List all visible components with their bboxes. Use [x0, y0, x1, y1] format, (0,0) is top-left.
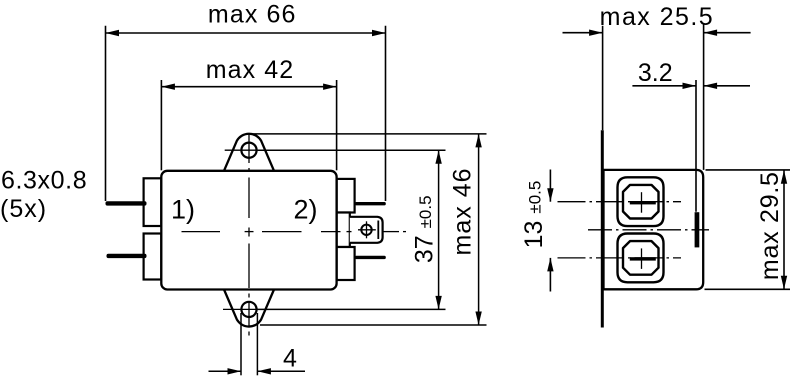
svg-text:max 46: max 46	[449, 168, 477, 256]
mounting lug top	[224, 134, 274, 171]
dimension max 29.5	[705, 170, 790, 289]
filter body (side view)	[604, 170, 704, 289]
dimension max 46	[246, 134, 487, 325]
left terminal bump lower	[144, 234, 162, 280]
dimension max 42	[161, 80, 336, 170]
faston tab hole	[358, 221, 376, 238]
centerline upper terminal	[558, 201, 682, 203]
svg-text:4: 4	[283, 345, 297, 373]
svg-text:max 29.5: max 29.5	[756, 171, 784, 280]
right terminal bump upper	[337, 179, 355, 213]
centerline middle tab	[588, 229, 709, 231]
wire lead upper left	[106, 201, 147, 205]
centerline lower terminal	[558, 257, 682, 259]
dimension 37 +/-0.5	[257, 150, 446, 309]
flat tab lower right (edge view)	[355, 256, 386, 259]
dimension max 25.5	[563, 25, 751, 170]
svg-text:max 42: max 42	[206, 56, 295, 84]
terminal cross-section lower	[618, 234, 664, 283]
svg-text:6.3x0.8: 6.3x0.8	[1, 167, 87, 195]
svg-text:3.2: 3.2	[638, 59, 673, 87]
svg-text:2): 2)	[294, 195, 318, 225]
right terminal bump lower	[337, 247, 355, 280]
hole in top lug	[241, 143, 256, 158]
faston tab middle right	[350, 217, 383, 243]
mounting lug bottom	[224, 290, 274, 327]
svg-text:max 25.5: max 25.5	[600, 3, 714, 31]
svg-text:1): 1)	[171, 195, 195, 225]
wire lead lower left	[107, 254, 147, 258]
dimension 13 +/-0.5	[549, 170, 551, 292]
mounting flange (side view)	[601, 130, 604, 327]
flat tab upper right (edge view)	[355, 202, 386, 205]
terminal cross-section upper	[618, 177, 664, 226]
vertical centerline front view	[248, 134, 250, 336]
horizontal centerline front view	[182, 231, 407, 233]
dimension 4 (lug slot)	[209, 313, 306, 375]
svg-text:(5x): (5x)	[0, 195, 47, 223]
dimension 3.2	[632, 80, 750, 212]
faston tab (side view, edge)	[695, 212, 700, 247]
dimension max 66	[106, 26, 386, 201]
faston tab tip fold line	[377, 221, 379, 240]
right terminal bump middle	[337, 213, 350, 248]
svg-text:max 66: max 66	[208, 1, 297, 29]
hole in bottom lug	[241, 302, 256, 317]
crosshair bottom lug hole	[223, 308, 258, 310]
left terminal bump upper	[144, 178, 162, 226]
crosshair top lug hole	[225, 149, 257, 151]
filter body (front view)	[161, 171, 336, 290]
